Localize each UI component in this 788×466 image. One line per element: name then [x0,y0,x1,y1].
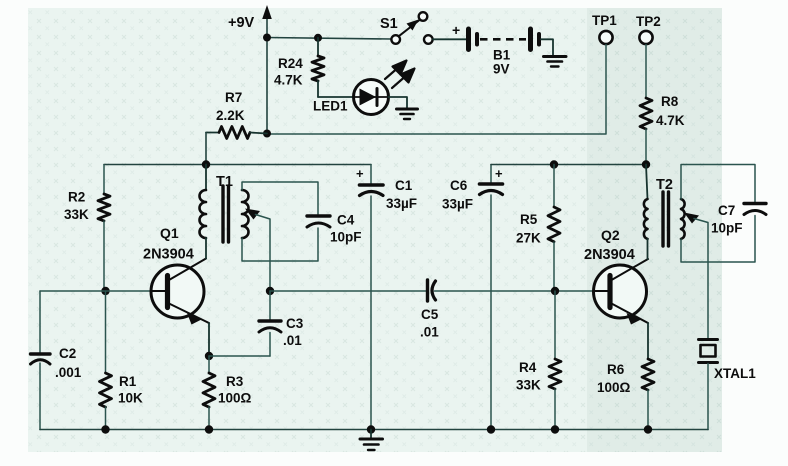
node junction R5 top [550,160,558,168]
resistor R2 [64,165,110,292]
svg-text:100Ω: 100Ω [218,391,252,406]
node junction R3 bottom [205,425,213,433]
wire signal line tap-to-C5 [270,290,426,292]
LED light arrows [385,61,415,89]
svg-text:C5: C5 [421,307,439,322]
node junction rail/R7/T1 [202,160,210,168]
wire C7 bottom back to T2 secondary [681,216,755,263]
svg-text:C3: C3 [286,316,304,331]
transistor Q2 2N3904 [584,227,648,325]
capacitor C2 [31,346,82,430]
svg-text:+: + [356,166,364,181]
wire TP2 down to R8 [645,45,647,99]
ground (bottom rail) [360,430,383,451]
resistor R3 [203,356,252,430]
wire +9V node to S1 [267,38,391,40]
svg-text:T2: T2 [656,177,673,193]
LED LED1 [313,80,389,115]
svg-text:C7: C7 [718,203,735,218]
test point TP1 [592,13,617,44]
svg-text:TP2: TP2 [636,14,661,29]
T2 secondary tap wire with arrow [684,213,708,339]
wire C5 to Q2 base [435,290,594,292]
svg-text:9V: 9V [493,62,510,77]
node junction R4 bottom [551,425,559,433]
capacitor C6 [442,165,503,430]
wire T2 primary bottom to Q2 collector [647,239,649,259]
resistor R7 [206,90,267,139]
svg-text:R2: R2 [68,190,85,205]
bottom ground rail [40,429,708,431]
svg-text:R1: R1 [119,374,137,389]
transformer T2 [644,165,685,247]
capacitor C7 [711,203,766,236]
node junction emitter/R3/C3wire [205,352,213,360]
node junction R6 bottom [644,425,652,433]
T1 secondary tap wire with arrow [245,209,270,292]
svg-text:.001: .001 [55,365,82,380]
node junction R7/TP1/+9V [263,130,271,138]
left supply rail [104,164,371,166]
svg-text:LED1: LED1 [313,99,348,114]
wire TP1 down and across to +9V/R7 node [267,45,606,135]
wire T1 primary bottom to Q1 collector [205,238,207,259]
node junction R24 top [314,34,322,42]
svg-text:4.7K: 4.7K [274,73,303,88]
svg-text:C4: C4 [337,213,355,228]
resistor R1 [100,291,144,430]
switch S1 [380,12,433,44]
svg-text:Q2: Q2 [601,227,620,243]
svg-text:R24: R24 [278,56,303,71]
svg-text:33K: 33K [64,207,89,222]
wire R24 to LED1 [318,96,353,98]
svg-text:B1: B1 [493,48,511,63]
svg-text:S1: S1 [380,16,398,32]
resistor R6 [597,359,654,430]
svg-text:+9V: +9V [228,15,255,31]
ground (B1) [544,57,567,67]
svg-text:C1: C1 [395,178,413,193]
wire T1 secondary loop with C4 [242,182,318,214]
svg-text:2.2K: 2.2K [216,108,245,123]
wire T2 secondary loop with C7 [681,165,755,203]
svg-text:10pF: 10pF [330,230,362,245]
node junction R2/R1/base [101,287,109,295]
wire down to C2 [39,291,41,353]
ground (LED1) [397,109,418,119]
svg-text:R3: R3 [226,374,244,389]
wire Q2 emitter down [647,323,649,359]
svg-text:33µF: 33µF [386,196,417,211]
node junction R8/T2 [642,160,650,168]
capacitor C4 [307,213,362,245]
svg-text:R5: R5 [520,212,538,227]
svg-text:2N3904: 2N3904 [143,247,194,263]
crystal XTAL1 [699,340,757,430]
svg-text:R6: R6 [607,362,625,377]
wire battery to ground [541,39,553,55]
svg-text:.01: .01 [420,325,439,340]
node junction R1 bottom [101,425,109,433]
svg-text:Q1: Q1 [160,225,179,241]
wire Q1 emitter down [208,323,210,356]
svg-text:+: + [452,22,460,38]
svg-text:R7: R7 [225,90,242,105]
svg-text:100Ω: 100Ω [597,380,631,395]
wire Q1 base [40,290,151,292]
svg-text:27K: 27K [516,231,541,246]
node junction C6 bottom [487,425,495,433]
svg-text:XTAL1: XTAL1 [714,366,756,381]
wire emitter node to C3 [209,355,270,357]
node junction tap/C3/base wire [266,287,274,295]
resistor R8 [640,94,685,164]
svg-text:2N3904: 2N3904 [584,247,635,263]
svg-text:.01: .01 [283,333,302,348]
node junction R5/R4/base wire [551,287,559,295]
resistor R5 [516,165,560,292]
resistor R4 [516,291,561,430]
resistor R24 [274,38,324,97]
capacitor C5 [420,280,439,340]
svg-text:R4: R4 [519,360,537,375]
svg-text:TP1: TP1 [592,13,617,28]
svg-text:T1: T1 [216,174,233,190]
capacitor C3 [259,291,304,356]
svg-text:4.7K: 4.7K [656,113,685,128]
svg-text:10K: 10K [118,391,143,406]
test point TP2 [636,14,661,44]
battery B1 [452,22,539,77]
transformer T1 [200,165,249,243]
svg-text:R8: R8 [661,94,679,109]
wire C4 bottom back to T1 secondary [242,228,318,261]
svg-text:C2: C2 [59,346,76,361]
node junction at +9V rail [263,34,271,42]
svg-text:C6: C6 [450,178,468,193]
right supply rail [491,164,646,166]
wire LED1 cathode to ground [389,97,408,108]
node junction C1 bottom [367,425,375,433]
svg-text:+: + [495,166,503,181]
transistor Q1 2N3904 [143,225,209,325]
svg-text:33K: 33K [516,378,541,393]
wire R7 left corner down to left rail [205,133,207,165]
wire S1 to battery [433,38,466,40]
+9V supply arrow [228,5,272,133]
svg-text:10pF: 10pF [711,221,743,236]
capacitor C1 [356,165,417,430]
svg-text:33µF: 33µF [442,197,473,212]
